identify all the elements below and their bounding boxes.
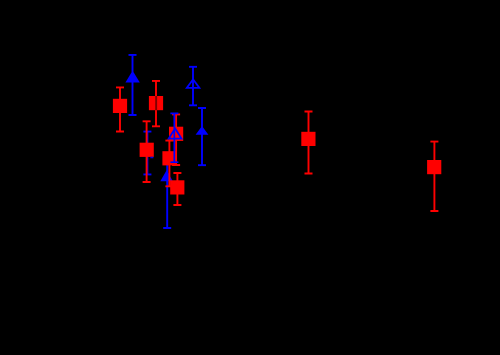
error bar S4 (red) <box>165 141 173 187</box>
triangle T1 (blue filled) <box>125 71 139 83</box>
open triangle O1 <box>187 79 200 88</box>
error bar S5 (red) <box>143 121 151 182</box>
error bar S3 (red) <box>172 114 180 165</box>
open triangle O2 (over square S3) <box>169 128 182 138</box>
error bar T1 (blue) <box>129 55 137 115</box>
triangle T3 (blue filled) <box>160 170 173 181</box>
square S3 <box>169 127 183 141</box>
error bar S6 (red) <box>173 173 181 205</box>
error bar S1 (red) <box>116 87 124 131</box>
triangle T2 (blue filled) <box>196 126 209 135</box>
error bar O2 (blue) <box>170 113 178 162</box>
dark line artifact over square S2 <box>155 96 157 110</box>
error bar S7 (red) <box>305 112 313 174</box>
error bar S2 (red) <box>152 81 160 126</box>
open triangle O3 corner sliver (peeking below square S5) <box>150 157 153 159</box>
square S4 <box>162 151 176 165</box>
square S2 <box>149 96 163 110</box>
error bar O1 (blue) <box>189 67 197 106</box>
error bar T3 (blue, top part hidden under square S4) <box>163 152 171 229</box>
square S1 <box>113 99 127 113</box>
square S5 <box>140 143 154 157</box>
square S7 <box>301 132 315 146</box>
square S8 <box>427 160 441 174</box>
error bar S8 (red) <box>430 142 438 211</box>
error bar O3 (blue, marker hidden under square S5) <box>143 132 151 175</box>
error bar T2 (blue) <box>198 108 206 165</box>
square S6 <box>170 180 184 194</box>
